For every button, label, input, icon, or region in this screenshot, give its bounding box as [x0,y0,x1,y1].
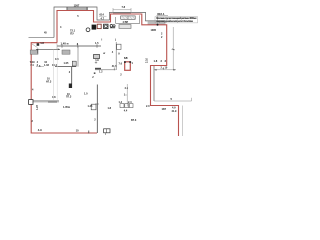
svg-text:1.2: 1.2 [99,70,103,73]
svg-text:4.8: 4.8 [52,96,56,99]
svg-text:302.1: 302.1 [157,12,165,16]
svg-text:4.9: 4.9 [38,128,42,132]
svg-text:4.4: 4.4 [124,109,128,112]
svg-text:41.5: 41.5 [112,65,117,68]
svg-text:1.05: 1.05 [64,62,69,65]
svg-text:Н7.3: Н7.3 [46,80,52,83]
svg-text:U: U [93,26,96,30]
svg-text:2.4: 2.4 [128,101,132,104]
svg-text:1267: 1267 [74,3,80,7]
svg-text:7.8: 7.8 [122,5,126,9]
svg-text:1.8: 1.8 [40,41,44,45]
svg-text:2.0: 2.0 [146,105,150,108]
svg-text:614: 614 [100,13,105,17]
svg-text:4.1: 4.1 [125,87,129,90]
svg-text:П7.3: П7.3 [66,96,72,99]
svg-text:1385: 1385 [151,29,157,32]
svg-text:по проекту дизайна смотри лист: по проекту дизайна смотри лист 2 альбома [156,20,194,23]
svg-text:В7.3: В7.3 [131,119,137,122]
svg-text:2.10: 2.10 [146,58,149,63]
svg-text:4.7: 4.7 [101,16,105,20]
svg-text:10.4: 10.4 [52,64,57,67]
svg-text:1.25: 1.25 [88,105,93,108]
svg-text:1.8: 1.8 [154,59,158,63]
svg-text:ПУ: ПУ [70,32,74,36]
svg-text:1.23: 1.23 [36,105,39,110]
svg-text:1.5: 1.5 [95,42,99,45]
svg-text:1.8: 1.8 [108,107,112,110]
svg-text:1.0: 1.0 [84,93,88,96]
svg-text:1.48: 1.48 [61,41,67,45]
svg-text:1.03: 1.03 [44,64,49,67]
svg-text:1.9: 1.9 [95,59,99,62]
svg-text:1.5: 1.5 [124,57,128,60]
svg-text:7.4: 7.4 [30,64,34,67]
svg-text:4 ВП: 4 ВП [123,21,129,24]
svg-text:187: 187 [162,107,167,111]
svg-text:41.9: 41.9 [172,110,177,113]
svg-text:1.05m: 1.05m [63,106,71,109]
svg-text:1.4: 1.4 [119,101,123,104]
svg-text:7.6: 7.6 [119,63,123,66]
svg-text:м: м [67,42,69,45]
svg-text:w: w [103,52,105,55]
